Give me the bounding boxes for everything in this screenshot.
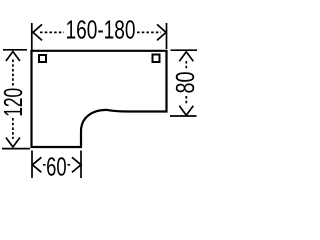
left dimension extension line top bbox=[3, 49, 27, 51]
right dimension arrow down bbox=[179, 106, 193, 116]
bottom dimension arrow left bbox=[32, 157, 41, 172]
left dimension dotted line upper bbox=[12, 60, 14, 88]
svg-text:60: 60 bbox=[46, 153, 67, 181]
left dimension extension line bottom bbox=[2, 148, 30, 150]
bottom dimension extension tick left bbox=[31, 151, 33, 179]
right dimension dotted line lower bbox=[185, 96, 187, 105]
svg-text:120: 120 bbox=[0, 88, 28, 117]
top dimension dotted line left bbox=[40, 31, 64, 33]
svg-text:160-180: 160-180 bbox=[66, 17, 136, 45]
desk outline bbox=[32, 51, 167, 147]
right dimension arrow up bbox=[179, 52, 193, 62]
bottom dimension arrow right bbox=[72, 157, 81, 172]
bottom dimension dash left bbox=[43, 164, 47, 166]
right dimension extension line bottom bbox=[170, 115, 197, 117]
bottom dimension dash right bbox=[68, 164, 72, 166]
grommet square right bbox=[153, 55, 160, 63]
top dimension arrow right bbox=[157, 24, 166, 40]
right dimension dotted line upper bbox=[185, 61, 187, 70]
bottom dimension extension tick right bbox=[80, 151, 82, 179]
top dimension arrow left bbox=[33, 24, 42, 40]
right dimension extension line top bbox=[171, 49, 198, 51]
top dimension dotted line right bbox=[137, 31, 161, 33]
left dimension arrow down bbox=[6, 138, 20, 148]
left dimension arrow up bbox=[6, 52, 20, 62]
left dimension dotted line lower bbox=[12, 118, 14, 139]
top dimension extension tick right bbox=[166, 23, 168, 49]
grommet square left bbox=[39, 55, 46, 62]
svg-text:80: 80 bbox=[172, 72, 200, 94]
top dimension extension tick left bbox=[31, 23, 33, 50]
